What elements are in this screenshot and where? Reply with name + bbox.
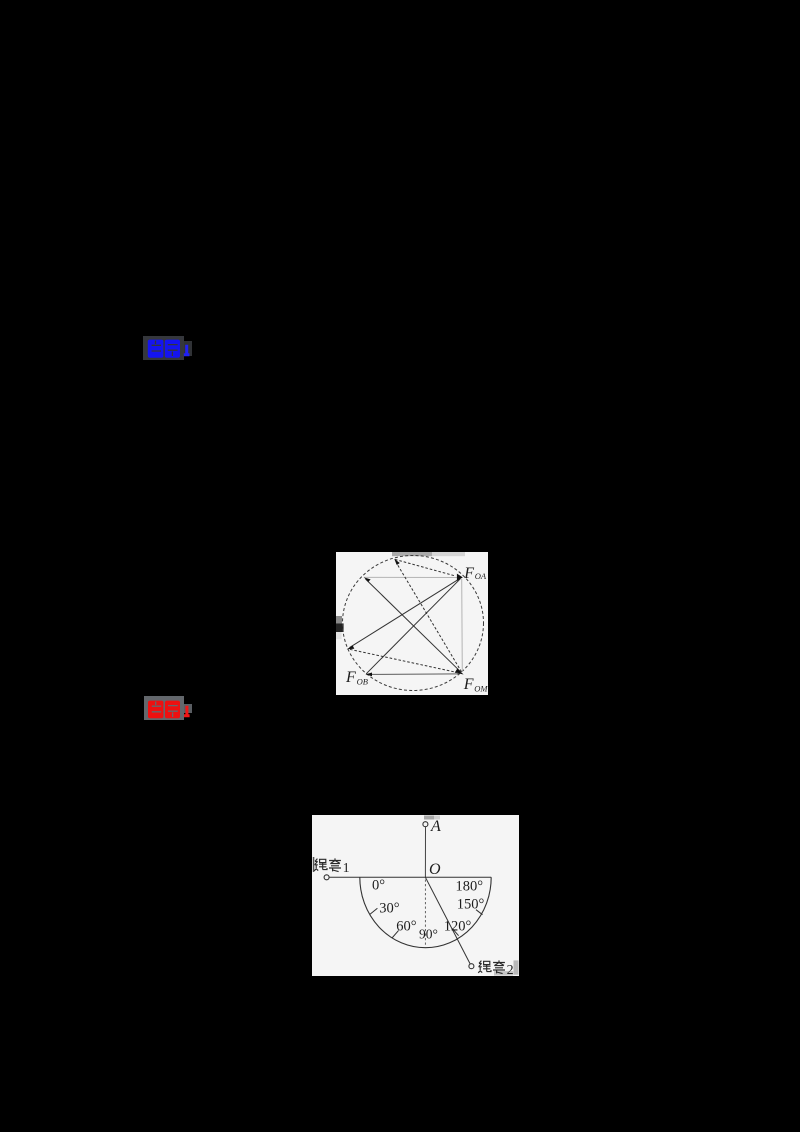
gray construction line L-A [364,576,461,578]
svg-text:120°: 120° [444,918,472,934]
red bold char 2 [165,701,180,719]
solid line O to rope loop 2 [425,877,470,964]
top edge gray smudge [424,816,434,820]
dashed line K to M [350,649,461,673]
svg-text:180°: 180° [456,879,484,895]
solid arrow M to L (heads both ends) [366,579,462,672]
point A circle [423,822,428,827]
rope loop 1 circle [324,875,329,880]
svg-text:F: F [345,669,356,686]
tick 150 deg [476,910,483,915]
svg-text:OB: OB [357,677,368,687]
svg-text:F: F [463,565,474,582]
top edge gray smudge [392,552,432,556]
rope loop 2 circle [469,964,474,969]
svg-text:60°: 60° [396,918,417,934]
tick 120 deg [452,929,458,936]
svg-text:O: O [429,861,441,878]
gray construction line A-M [461,579,464,672]
svg-text:F: F [463,676,474,693]
solid line A to B [366,579,460,674]
svg-text:1: 1 [343,861,350,876]
solid arrow A to K (head at K) [350,578,461,647]
protractor semicircle [360,877,491,947]
left edge tick [313,857,315,872]
blue small digit 1 [184,345,190,355]
label badge VAR1 (red) [144,696,184,720]
figure 1: circle of force vectors [336,552,488,695]
dashed arrow T to A (big head at A) [395,559,456,576]
gray smudges near rope2 label [514,960,519,974]
dashed circle [343,556,484,691]
svg-text:30°: 30° [379,901,400,917]
svg-text:0°: 0° [372,878,385,894]
svg-text:150°: 150° [457,897,485,913]
tick 60 deg [392,930,399,938]
dashed arrow M to T (head at T) [396,563,461,672]
figure 2: protractor / rope loops [312,815,519,976]
horizontal baseline [329,876,491,878]
blue bold char 2 [165,340,180,358]
label badge EX1 (blue) [143,336,184,360]
line A to O [424,827,426,877]
rope label 1 (Chinese: sheng tao 1) [314,858,341,871]
red small digit 1 [184,706,190,716]
svg-text:90°: 90° [419,926,438,941]
rope label 2 (Chinese: sheng tao 2) [478,960,505,973]
dashed 90 deg line [424,880,426,947]
svg-text:2: 2 [507,963,514,976]
arrow M to B (gray shaft, black head at B) [369,673,460,676]
tick 30 deg [370,908,377,914]
svg-text:OM: OM [474,684,488,694]
svg-text:OA: OA [475,571,487,581]
svg-text:A: A [430,818,441,835]
blue bold char 1 [148,340,164,358]
left edge scan marks [336,616,342,623]
red bold char 1 [148,701,163,719]
